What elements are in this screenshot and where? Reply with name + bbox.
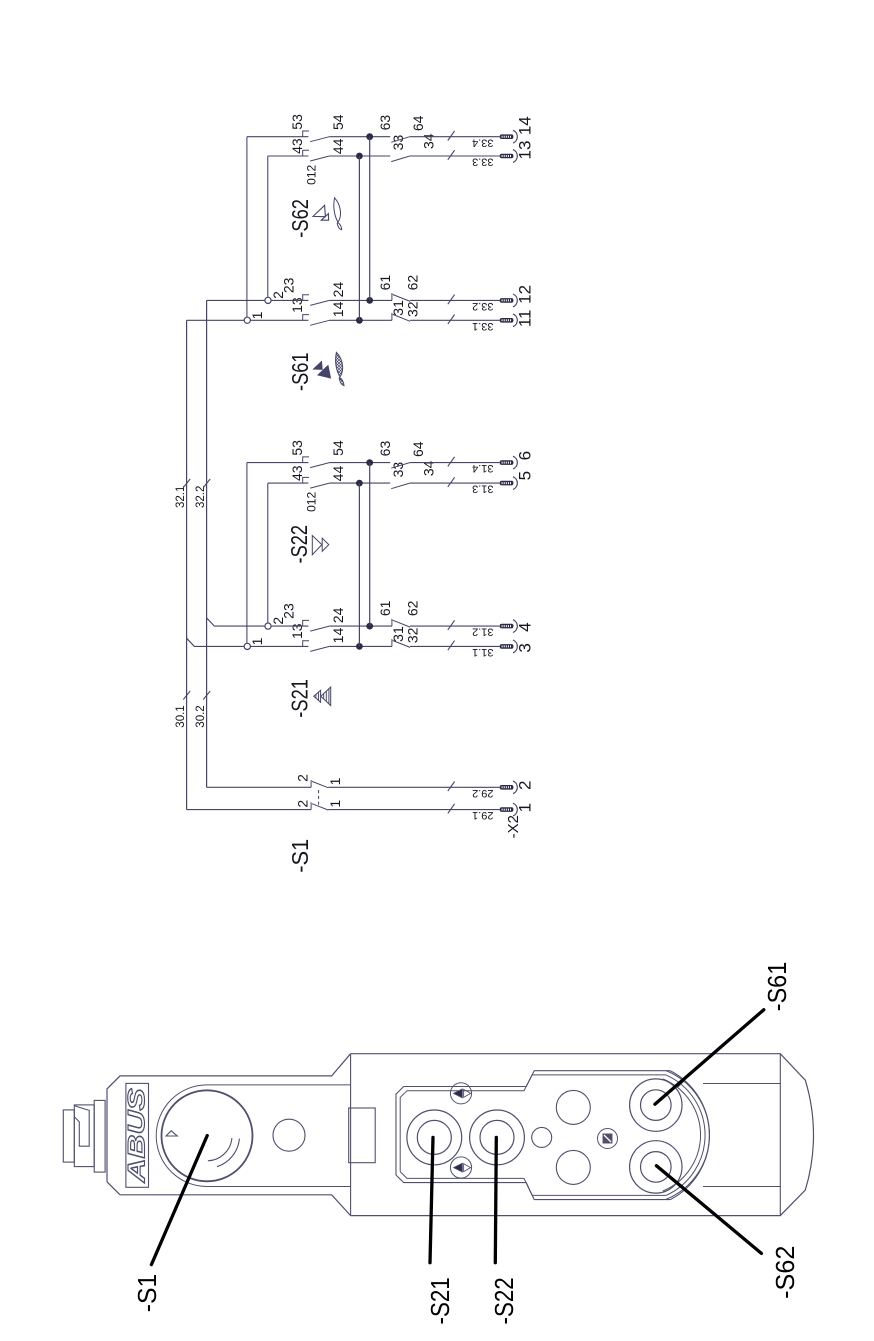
wire: circle2 feed to column D <box>267 483 269 623</box>
svg-text:1: 1 <box>249 637 265 645</box>
branch chamfer from bus A <box>187 638 245 646</box>
end ring arcs <box>63 1110 74 1162</box>
cross link wire A-D <box>358 156 360 320</box>
svg-text:2: 2 <box>295 774 311 782</box>
svg-text:-S22: -S22 <box>489 1277 519 1324</box>
svg-text:1: 1 <box>516 803 535 812</box>
S61/S62 NC contact 31-32 <box>391 313 393 320</box>
svg-text:ABUS: ABUS <box>123 1088 150 1183</box>
terminal 4 clamp arc <box>513 620 517 633</box>
branch chamfer from bus B <box>207 618 265 626</box>
S1 NC contact at x=553.7 <box>310 780 312 787</box>
plug connector circle 1 <box>244 317 250 323</box>
callout line to S21 <box>430 1137 433 1262</box>
svg-text:2: 2 <box>295 800 311 808</box>
bus slash <box>183 691 190 700</box>
svg-text:11: 11 <box>516 309 535 327</box>
wire slash <box>448 131 455 141</box>
S21/S22 NO contact 43-44 <box>303 477 309 483</box>
S61/S62 NO contact 33-34 <box>391 156 410 162</box>
terminal 14 clamp arc <box>513 130 517 143</box>
svg-text:33.1: 33.1 <box>472 320 493 332</box>
svg-text:61: 61 <box>377 600 393 616</box>
wire slash <box>448 782 455 792</box>
svg-text:5: 5 <box>516 471 535 480</box>
S61/S62 NC contact 61-62 <box>391 293 393 300</box>
svg-text:29.2: 29.2 <box>472 787 493 799</box>
svg-text:12: 12 <box>516 285 535 304</box>
svg-text:3: 3 <box>516 643 535 652</box>
S61/S62 NO contact 23-24 <box>303 295 309 301</box>
svg-text:-X2: -X2 <box>505 815 522 838</box>
S1 mechanical link (dashed) <box>318 787 320 804</box>
svg-text:62: 62 <box>405 600 421 616</box>
wire slash <box>448 804 455 814</box>
junction <box>366 459 373 466</box>
S21/S22 NO contact 23-24 <box>303 620 309 626</box>
svg-text:29.1: 29.1 <box>472 809 493 821</box>
S21/S22 NO contact 13-14 <box>303 641 309 647</box>
wire: circle1 feed to column C <box>246 463 248 644</box>
terminal 4 ferrule <box>500 624 514 629</box>
svg-text:34: 34 <box>421 133 437 149</box>
svg-text:-S1: -S1 <box>287 839 313 873</box>
terminal 13 clamp arc <box>513 150 517 163</box>
cross link wire B-C <box>369 463 371 627</box>
terminal 3 ferrule <box>500 644 514 649</box>
svg-text:1: 1 <box>327 800 343 808</box>
S61/S62 NO contact 43-44 <box>303 150 309 156</box>
svg-text:-S61: -S61 <box>287 352 313 391</box>
callout line to S22 <box>495 1137 496 1262</box>
junction <box>366 297 373 304</box>
svg-text:-S62: -S62 <box>770 1246 800 1299</box>
wire: bus A drop to S1 contact 1 <box>187 809 312 811</box>
terminal 1 ferrule <box>500 807 514 812</box>
svg-text:1: 1 <box>327 777 343 785</box>
cross link wire A-D <box>358 483 360 646</box>
bus B corner down to circle 2 <box>207 299 265 301</box>
callout line to S62 <box>656 1166 761 1254</box>
S61/S62 NO contact 13-14 <box>303 315 309 321</box>
svg-text:32.2: 32.2 <box>195 486 207 508</box>
svg-text:43: 43 <box>289 138 305 154</box>
S21/S22 NC contact 61-62 <box>391 619 393 626</box>
wire slash <box>448 457 455 467</box>
svg-text:-S21: -S21 <box>425 1277 455 1324</box>
svg-text:31.3: 31.3 <box>472 483 493 495</box>
junction <box>366 623 373 630</box>
svg-text:63: 63 <box>377 441 393 457</box>
svg-text:43: 43 <box>289 465 305 481</box>
svg-text:53: 53 <box>289 440 305 456</box>
svg-text:6: 6 <box>516 451 535 460</box>
svg-text:-S21: -S21 <box>287 679 313 718</box>
svg-text:24: 24 <box>330 607 346 623</box>
svg-text:2: 2 <box>516 781 535 790</box>
S21/S22 NO contact 33-34 <box>391 483 410 489</box>
S21/S22 NO contact 53-54 <box>303 457 309 463</box>
junction <box>356 317 363 324</box>
column B wire <box>271 625 308 627</box>
cross link wire B-C <box>369 137 371 301</box>
svg-text:012: 012 <box>305 164 319 184</box>
terminal 5 ferrule <box>500 481 514 486</box>
terminal 2 clamp arc <box>513 781 517 794</box>
terminal 11 ferrule <box>500 318 514 323</box>
svg-text:30.2: 30.2 <box>195 705 207 727</box>
bus wire A (upper) <box>186 320 188 809</box>
svg-text:1: 1 <box>249 311 265 319</box>
bus slash <box>183 479 190 488</box>
svg-text:-S61: -S61 <box>762 962 792 1011</box>
svg-text:14: 14 <box>516 116 535 135</box>
S22 symbol: double open down-triangles <box>312 536 322 555</box>
svg-text:33.2: 33.2 <box>472 300 493 312</box>
S21/S22 NO contact 63-64 <box>391 463 410 469</box>
column A wire <box>250 645 308 647</box>
svg-text:30.1: 30.1 <box>175 705 187 727</box>
svg-text:23: 23 <box>281 603 297 619</box>
wire slash <box>448 641 455 651</box>
svg-text:4: 4 <box>516 622 535 631</box>
svg-text:23: 23 <box>281 277 297 293</box>
svg-text:31.4: 31.4 <box>472 462 493 474</box>
svg-text:61: 61 <box>377 275 393 291</box>
bus wire B (lower) <box>206 300 208 787</box>
terminal 12 ferrule <box>500 298 514 303</box>
svg-text:62: 62 <box>405 275 421 291</box>
bus A corner down to circle 1 <box>187 319 245 321</box>
svg-text:44: 44 <box>330 466 346 482</box>
svg-text:31.1: 31.1 <box>472 646 493 658</box>
svg-text:24: 24 <box>330 282 346 298</box>
junction <box>356 643 363 650</box>
svg-text:-S62: -S62 <box>287 199 313 238</box>
junction <box>356 153 363 160</box>
svg-text:31.2: 31.2 <box>472 626 493 638</box>
column B wire <box>271 299 308 301</box>
svg-text:63: 63 <box>377 115 393 131</box>
svg-text:64: 64 <box>410 115 426 131</box>
terminal 14 ferrule <box>500 134 514 139</box>
S61/S62 NO contact 53-54 <box>303 131 309 137</box>
junction <box>366 133 373 140</box>
S1 NC contact at x=531.4 <box>310 802 312 809</box>
callout line to S61 <box>655 1010 764 1104</box>
svg-text:13: 13 <box>516 141 535 160</box>
terminal 11 clamp arc <box>513 314 517 327</box>
S61 symbol: two filled arrows and hatched quill flag <box>314 362 323 370</box>
svg-text:012: 012 <box>305 492 319 512</box>
S61/S62 NO contact 63-64 <box>391 137 410 143</box>
svg-text:14: 14 <box>330 628 346 644</box>
svg-text:-S22: -S22 <box>286 525 312 564</box>
wire: bus B drop to S1 contact 2 <box>207 786 312 788</box>
terminal 5 clamp arc <box>513 477 517 490</box>
terminal 6 clamp arc <box>513 456 517 469</box>
terminal 1 clamp arc <box>513 803 517 816</box>
svg-text:-S1: -S1 <box>132 1274 162 1313</box>
terminal 3 clamp arc <box>513 640 517 653</box>
wire: circle2 feed to column D <box>267 156 269 297</box>
terminal 12 clamp arc <box>513 294 517 307</box>
wire: circle1 feed to column C <box>246 137 248 318</box>
S21/S22 NC contact 31-32 <box>391 639 393 646</box>
bus slash <box>203 691 210 700</box>
wire slash <box>448 295 455 305</box>
plug connector circle 1 <box>244 643 250 649</box>
terminal 6 ferrule <box>500 460 514 465</box>
bus slash <box>203 479 210 488</box>
svg-text:14: 14 <box>330 301 346 317</box>
wire slash <box>448 150 455 160</box>
svg-text:44: 44 <box>330 138 346 154</box>
wire slash <box>448 315 455 325</box>
svg-text:33.3: 33.3 <box>472 156 493 168</box>
svg-text:54: 54 <box>330 440 346 456</box>
column A wire <box>250 319 308 321</box>
plug connector circle 2 <box>265 623 271 629</box>
wire slash <box>448 620 455 630</box>
svg-text:54: 54 <box>330 114 346 130</box>
junction <box>356 480 363 487</box>
S62 symbol: two open arrows and quill flag <box>313 205 325 216</box>
svg-text:53: 53 <box>289 114 305 130</box>
svg-text:32: 32 <box>405 301 421 317</box>
plug connector circle 2 <box>265 297 271 303</box>
svg-text:32.1: 32.1 <box>175 486 187 508</box>
svg-text:64: 64 <box>410 441 426 457</box>
terminal 13 ferrule <box>500 154 514 159</box>
callout line to S1 <box>151 1136 207 1265</box>
svg-text:32: 32 <box>405 627 421 643</box>
terminal 2 ferrule <box>500 785 514 790</box>
wire slash <box>448 477 455 487</box>
svg-text:33.4: 33.4 <box>472 136 493 148</box>
S21 symbol: double hatched up-triangles <box>314 690 321 702</box>
